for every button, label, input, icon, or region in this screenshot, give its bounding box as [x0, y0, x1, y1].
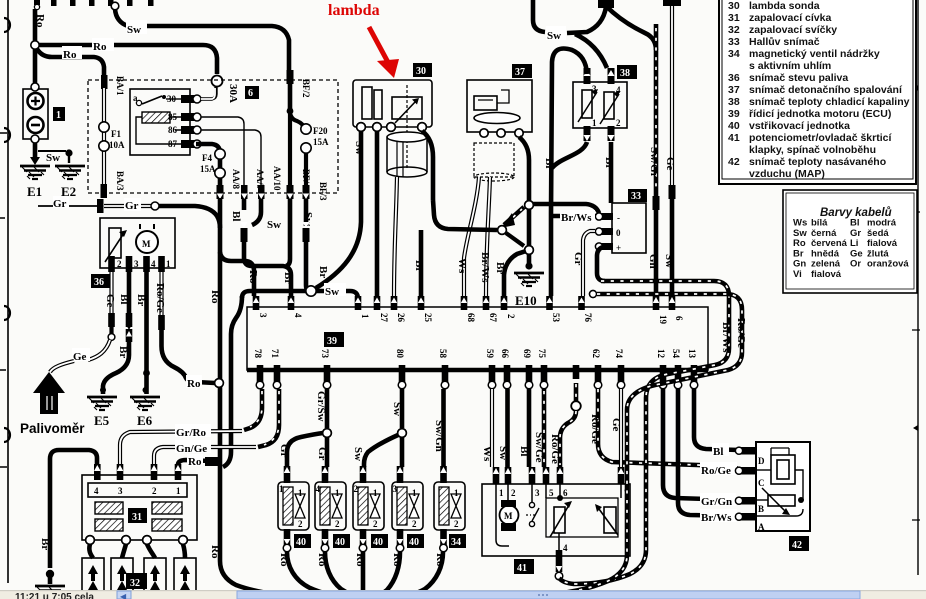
- svg-text:2: 2: [412, 519, 417, 529]
- svg-text:Gr: Gr: [316, 447, 328, 461]
- svg-text:klapky, spínač volnoběhu: klapky, spínač volnoběhu: [749, 144, 876, 156]
- svg-text:31: 31: [132, 512, 142, 523]
- svg-text:Gr/Ro: Gr/Ro: [176, 427, 206, 439]
- svg-text:Br: Br: [603, 157, 615, 169]
- svg-text:vzduchu (MAP): vzduchu (MAP): [749, 168, 825, 180]
- svg-text:Or: Or: [850, 259, 861, 270]
- svg-text:snímač teploty chladicí kapali: snímač teploty chladicí kapaliny: [749, 96, 910, 108]
- svg-text:42: 42: [792, 540, 802, 551]
- svg-text:Br: Br: [117, 346, 129, 358]
- svg-text:2: 2: [506, 314, 516, 319]
- svg-text:C: C: [758, 478, 765, 488]
- svg-text:4: 4: [293, 313, 303, 318]
- svg-text:zapalovací svíčky: zapalovací svíčky: [749, 24, 837, 36]
- svg-text:2: 2: [454, 519, 459, 529]
- svg-text:Bl: Bl: [518, 446, 530, 456]
- svg-text:30: 30: [728, 0, 740, 12]
- svg-text:1: 1: [56, 110, 61, 121]
- svg-text:59: 59: [485, 349, 495, 359]
- svg-text:6: 6: [248, 88, 253, 99]
- svg-text:66: 66: [500, 349, 510, 359]
- svg-text:Br: Br: [413, 260, 425, 272]
- svg-text:2: 2: [335, 519, 340, 529]
- svg-text:68: 68: [466, 313, 476, 323]
- svg-text:30A: 30A: [227, 84, 239, 103]
- svg-text:Ge: Ge: [664, 157, 676, 171]
- svg-text:1: 1: [373, 488, 378, 498]
- svg-text:s aktivním uhlím: s aktivním uhlím: [749, 60, 831, 72]
- svg-text:Ro: Ro: [247, 270, 259, 284]
- svg-text:oranžová: oranžová: [867, 259, 909, 270]
- svg-text:Sw/Ge: Sw/Ge: [533, 432, 545, 463]
- svg-text:vstřikovací jednotka: vstřikovací jednotka: [749, 120, 850, 132]
- svg-text:78: 78: [253, 349, 263, 359]
- svg-text:zapalovací cívka: zapalovací cívka: [749, 12, 831, 24]
- svg-text:Ro: Ro: [188, 456, 202, 468]
- svg-text:12: 12: [656, 349, 666, 359]
- svg-text:BA/3: BA/3: [115, 171, 125, 191]
- svg-text:25: 25: [423, 313, 433, 323]
- svg-text:37: 37: [728, 84, 740, 96]
- svg-text:Br/Ws: Br/Ws: [479, 252, 491, 283]
- svg-text:Sw: Sw: [352, 447, 364, 461]
- svg-text:BF/2: BF/2: [301, 79, 311, 98]
- svg-text:magnetický ventil nádržky: magnetický ventil nádržky: [749, 48, 880, 60]
- svg-text:34: 34: [451, 537, 461, 548]
- svg-text:69: 69: [522, 349, 532, 359]
- svg-text:Ro: Ro: [209, 545, 221, 559]
- svg-text:Gr: Gr: [53, 198, 67, 210]
- svg-text:Bl: Bl: [543, 158, 555, 168]
- svg-text:1: 1: [592, 118, 597, 128]
- svg-text:Ro: Ro: [63, 49, 77, 61]
- svg-text:2: 2: [117, 259, 122, 269]
- svg-text:3: 3: [393, 484, 398, 494]
- svg-text:E5: E5: [94, 413, 110, 428]
- svg-text:Sw: Sw: [663, 254, 675, 268]
- svg-text:36: 36: [728, 72, 740, 84]
- svg-text:Ro/Ge: Ro/Ge: [701, 465, 731, 477]
- svg-text:lambda: lambda: [328, 2, 380, 19]
- svg-text:AA/8: AA/8: [231, 169, 241, 189]
- svg-text:Gr: Gr: [278, 444, 290, 458]
- svg-text:BA/1: BA/1: [115, 76, 125, 96]
- svg-text:Sw: Sw: [267, 219, 281, 231]
- svg-text:73: 73: [320, 349, 330, 359]
- svg-text:B: B: [758, 504, 764, 514]
- svg-text:2: 2: [511, 488, 516, 498]
- svg-text:53: 53: [551, 313, 561, 323]
- svg-text:32: 32: [728, 24, 740, 36]
- svg-text:Gr: Gr: [572, 252, 584, 266]
- svg-text:BF/3: BF/3: [318, 182, 328, 201]
- svg-text:Ge: Ge: [104, 294, 116, 308]
- svg-text:4: 4: [616, 85, 621, 95]
- svg-text:76: 76: [583, 313, 593, 323]
- svg-text:3: 3: [118, 486, 123, 496]
- svg-text:Sw: Sw: [127, 24, 141, 36]
- svg-text:Ro: Ro: [187, 378, 201, 390]
- svg-text:4: 4: [563, 543, 568, 553]
- svg-text:Gr: Gr: [125, 200, 139, 212]
- svg-text:Ge: Ge: [610, 418, 622, 432]
- svg-text:E6: E6: [137, 413, 153, 428]
- svg-text:Br/Ws: Br/Ws: [701, 512, 732, 524]
- svg-text:Br/Ws: Br/Ws: [720, 322, 732, 353]
- svg-text:Br/Ws: Br/Ws: [561, 212, 592, 224]
- svg-text:Ro: Ro: [209, 290, 221, 304]
- svg-text:3: 3: [258, 313, 268, 318]
- svg-text:Sw: Sw: [353, 141, 365, 155]
- svg-text:40: 40: [296, 537, 306, 548]
- svg-text:Vi: Vi: [793, 269, 802, 280]
- svg-text:40: 40: [409, 537, 419, 548]
- svg-text:38: 38: [620, 68, 630, 79]
- svg-text:Ws: Ws: [456, 258, 468, 274]
- svg-text:39: 39: [327, 336, 337, 347]
- svg-text:◀: ◀: [120, 592, 127, 599]
- svg-text:2: 2: [298, 519, 303, 529]
- svg-text:F1: F1: [111, 129, 121, 139]
- svg-text:54: 54: [671, 349, 681, 359]
- svg-text:0: 0: [616, 228, 621, 238]
- svg-text:F20: F20: [313, 126, 328, 136]
- svg-text:33: 33: [728, 36, 740, 48]
- svg-text:Palivoměr: Palivoměr: [20, 421, 85, 436]
- svg-text:E10: E10: [515, 293, 537, 308]
- svg-text:41: 41: [517, 563, 527, 574]
- svg-text:3: 3: [592, 84, 597, 94]
- svg-text:31: 31: [728, 12, 740, 24]
- svg-text:1: 1: [499, 488, 504, 498]
- svg-text:lambda sonda: lambda sonda: [749, 0, 820, 12]
- svg-text:Sw: Sw: [547, 30, 561, 42]
- svg-text:39: 39: [728, 108, 740, 120]
- svg-text:Bl: Bl: [118, 294, 130, 304]
- svg-text:30: 30: [167, 94, 177, 104]
- svg-text:Br: Br: [494, 262, 506, 274]
- svg-text:Ro: Ro: [34, 14, 46, 28]
- svg-text:Sw/Gr: Sw/Gr: [648, 147, 660, 178]
- svg-text:snímač teploty nasávaného: snímač teploty nasávaného: [749, 156, 886, 168]
- svg-text:19: 19: [658, 315, 668, 325]
- svg-text:Ro: Ro: [93, 41, 107, 53]
- svg-text:87: 87: [168, 139, 178, 149]
- svg-text:1: 1: [335, 488, 340, 498]
- svg-text:36: 36: [94, 277, 104, 288]
- svg-text:Sw: Sw: [46, 152, 60, 164]
- svg-text:2: 2: [616, 118, 621, 128]
- svg-text:Hallův snímač: Hallův snímač: [749, 36, 820, 48]
- svg-text:F4: F4: [202, 153, 212, 163]
- svg-text:1: 1: [412, 488, 417, 498]
- svg-text:Gr/Gn: Gr/Gn: [701, 496, 732, 508]
- svg-text:Gr/Sw: Gr/Sw: [315, 391, 327, 422]
- svg-text:67: 67: [488, 313, 498, 323]
- svg-text:3: 3: [134, 259, 139, 269]
- svg-text:Bl: Bl: [230, 211, 242, 221]
- svg-text:40: 40: [728, 120, 740, 132]
- svg-text:snímač stevu paliva: snímač stevu paliva: [749, 72, 848, 84]
- svg-text:Br: Br: [282, 272, 294, 284]
- svg-text:71: 71: [270, 349, 280, 359]
- svg-text:3: 3: [535, 488, 540, 498]
- svg-text:-: -: [617, 213, 620, 223]
- svg-text:M: M: [142, 239, 151, 249]
- svg-text:D: D: [758, 456, 765, 466]
- svg-text:27: 27: [379, 313, 389, 323]
- svg-text:potenciometr/ovladač škrticí: potenciometr/ovladač škrticí: [749, 132, 892, 144]
- svg-text:Sw: Sw: [325, 286, 339, 298]
- svg-text:2: 2: [354, 484, 359, 494]
- svg-text:13: 13: [687, 349, 697, 359]
- svg-text:1: 1: [454, 488, 459, 498]
- svg-text:6: 6: [563, 488, 568, 498]
- svg-text:1: 1: [176, 486, 181, 496]
- svg-text:fialová: fialová: [811, 269, 842, 280]
- svg-text:11:21 u 7:05 cela: 11:21 u 7:05 cela: [15, 592, 94, 599]
- svg-text:74: 74: [614, 349, 624, 359]
- svg-text:AA/10: AA/10: [272, 166, 282, 191]
- svg-text:M: M: [504, 511, 513, 521]
- svg-text:5: 5: [549, 488, 554, 498]
- svg-text:A: A: [758, 522, 765, 532]
- svg-text:Sw: Sw: [497, 446, 509, 460]
- svg-text:1: 1: [279, 484, 284, 494]
- svg-text:33: 33: [631, 191, 641, 202]
- svg-text:41: 41: [728, 132, 740, 144]
- svg-text:Sw/Gn: Sw/Gn: [433, 420, 445, 452]
- svg-text:Br: Br: [39, 538, 51, 550]
- svg-text:32: 32: [130, 578, 140, 589]
- svg-text:Ws: Ws: [481, 446, 493, 462]
- svg-text:62: 62: [591, 349, 601, 359]
- svg-text:Ge: Ge: [73, 351, 87, 363]
- svg-text:26: 26: [396, 313, 406, 323]
- svg-text:15A: 15A: [313, 137, 329, 147]
- svg-text:Ro/Ge: Ro/Ge: [589, 414, 601, 444]
- svg-text:Bl: Bl: [713, 446, 723, 458]
- svg-text:Gn: Gn: [647, 254, 659, 269]
- svg-text:+: +: [616, 243, 621, 253]
- svg-text:1: 1: [360, 314, 370, 319]
- svg-text:37: 37: [515, 67, 525, 78]
- svg-text:85: 85: [168, 112, 178, 122]
- svg-text:4: 4: [151, 259, 156, 269]
- svg-text:Ro/Ge: Ro/Ge: [154, 283, 166, 313]
- svg-text:4: 4: [316, 484, 321, 494]
- svg-text:86: 86: [168, 125, 178, 135]
- svg-text:1: 1: [166, 259, 171, 269]
- svg-text:34: 34: [728, 48, 740, 60]
- svg-text:10A: 10A: [109, 140, 125, 150]
- svg-text:40: 40: [373, 537, 383, 548]
- svg-text:42: 42: [728, 156, 740, 168]
- svg-text:2: 2: [152, 486, 157, 496]
- svg-text:E1: E1: [27, 184, 42, 199]
- svg-text:1: 1: [298, 488, 303, 498]
- svg-text:2: 2: [373, 519, 378, 529]
- svg-text:Br: Br: [135, 294, 147, 306]
- svg-text:75: 75: [537, 349, 547, 359]
- svg-text:80: 80: [395, 349, 405, 359]
- svg-text:Gn/Ge: Gn/Ge: [176, 443, 207, 455]
- svg-text:snímač detonačního spalování: snímač detonačního spalování: [749, 84, 903, 96]
- svg-text:Ro/Ge: Ro/Ge: [735, 318, 747, 348]
- svg-text:30: 30: [416, 66, 426, 77]
- svg-text:Sw: Sw: [391, 402, 403, 416]
- svg-text:6: 6: [674, 316, 684, 321]
- svg-text:38: 38: [728, 96, 740, 108]
- svg-text:4: 4: [94, 486, 99, 496]
- svg-text:15A: 15A: [200, 164, 216, 174]
- svg-text:40: 40: [335, 537, 345, 548]
- svg-text:Ro/Ge: Ro/Ge: [549, 434, 561, 464]
- svg-text:Br: Br: [317, 266, 329, 278]
- svg-text:58: 58: [438, 349, 448, 359]
- svg-text:řídicí jednotka motoru (ECU): řídicí jednotka motoru (ECU): [749, 108, 891, 120]
